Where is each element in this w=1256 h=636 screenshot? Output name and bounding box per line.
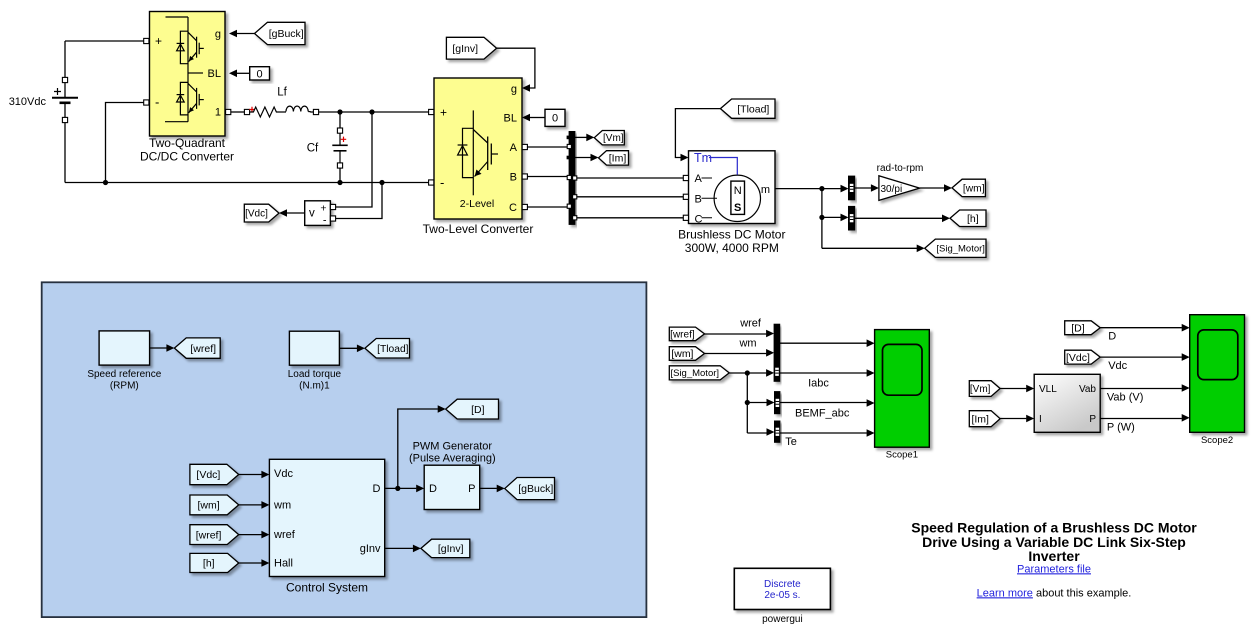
From tag [gInv] xyxy=(446,37,496,59)
wire Sig_Motor down xyxy=(746,373,748,433)
svg-text:[wref]: [wref] xyxy=(190,343,216,355)
svg-text:[Tload]: [Tload] xyxy=(377,344,408,355)
Goto tag [wm] xyxy=(952,179,985,196)
wire U2 B to bus xyxy=(527,176,569,178)
svg-text:(RPM): (RPM) xyxy=(110,380,139,391)
wire Vdc to CS xyxy=(239,474,262,476)
wire gBuck to U1 g xyxy=(237,33,255,35)
wire CS gInv out xyxy=(385,547,413,549)
svg-text:BEMF_abc: BEMF_abc xyxy=(795,407,850,419)
Lf right port xyxy=(313,109,318,114)
U2 + port xyxy=(429,109,434,114)
bus selector S2 xyxy=(849,206,855,230)
wire to selector B3 xyxy=(747,432,766,434)
svg-text:m: m xyxy=(761,184,770,196)
wire Im to power block xyxy=(1000,418,1026,420)
wire wref to CS xyxy=(239,534,262,536)
subsystem Control System xyxy=(269,459,384,576)
From tag [h] xyxy=(190,553,239,572)
U1 - port xyxy=(144,100,149,105)
wire Vm to power block xyxy=(1000,388,1026,390)
svg-text:P: P xyxy=(1089,414,1096,425)
wire BEMF_abc to scope1 xyxy=(780,402,867,404)
svg-text:v: v xyxy=(309,208,315,220)
capacitor Cf branch xyxy=(339,112,341,128)
svg-text:[D]: [D] xyxy=(1071,322,1085,334)
Goto tag [Im] xyxy=(599,151,629,165)
wire mux to scope1 in1 xyxy=(780,342,867,344)
bus Vm/Im stubs xyxy=(567,136,571,140)
bus out port xyxy=(573,195,577,199)
wire bus to Im xyxy=(575,157,591,159)
wire U2 C to bus xyxy=(527,206,569,208)
svg-text:Vdc: Vdc xyxy=(1108,360,1127,372)
svg-text:C: C xyxy=(509,202,517,214)
svg-text:A: A xyxy=(695,173,703,185)
svg-text:Hall: Hall xyxy=(274,557,293,569)
wire U2 A to bus xyxy=(527,146,569,148)
bus selector S1 xyxy=(849,176,855,200)
svg-text:[Im]: [Im] xyxy=(609,153,627,165)
wire speed ref to wref xyxy=(150,347,167,349)
bus out port xyxy=(573,176,577,180)
wire V1 + to top rail xyxy=(336,112,372,207)
svg-text:wm: wm xyxy=(273,499,291,511)
svg-text:[gInv]: [gInv] xyxy=(438,543,464,555)
mux scope1 xyxy=(774,324,780,381)
svg-text:C: C xyxy=(695,213,703,225)
powergui block xyxy=(734,568,830,609)
From tag [Im] scope2 xyxy=(969,411,1000,427)
svg-text:S: S xyxy=(734,202,741,214)
From tag [gBuck] xyxy=(255,22,306,44)
U2 C port xyxy=(522,204,527,209)
From tag [Sig_Motor] scope1 xyxy=(669,366,729,380)
DC voltage source 310Vdc xyxy=(52,41,78,183)
constant 0 for U2 BL xyxy=(545,109,565,126)
Goto tag [Vdc] xyxy=(244,204,279,222)
scope Scope1 xyxy=(875,330,930,448)
bus selector B2 xyxy=(775,392,780,414)
wire gain to wm xyxy=(920,187,945,189)
svg-text:30/pi: 30/pi xyxy=(881,184,903,195)
svg-text:Scope2: Scope2 xyxy=(1201,435,1233,446)
svg-text:0: 0 xyxy=(257,68,263,80)
svg-text:Brushless DC Motor: Brushless DC Motor xyxy=(678,228,785,242)
svg-text:wref: wref xyxy=(739,317,762,329)
wire CS D out xyxy=(385,487,417,489)
battery - terminal port xyxy=(62,117,67,122)
wire D to scope2 xyxy=(1100,327,1182,329)
svg-text:Vdc: Vdc xyxy=(274,468,293,480)
svg-text:N: N xyxy=(734,185,742,197)
motor A port xyxy=(683,175,688,180)
wire U1 out to Lf xyxy=(231,111,245,113)
U2 - port xyxy=(429,180,434,185)
svg-text:I: I xyxy=(1039,414,1042,425)
wire to selector B2 xyxy=(747,402,766,404)
svg-text:wref: wref xyxy=(273,529,296,541)
Goto tag [gInv] xyxy=(421,539,470,557)
motor Brushless DC xyxy=(689,151,776,224)
wire Sig_Motor to selector xyxy=(729,372,766,374)
voltage measurement V1 xyxy=(305,201,331,226)
svg-text:Vab (V): Vab (V) xyxy=(1107,392,1143,404)
wire wref to mux xyxy=(705,333,767,335)
svg-text:(N.m)1: (N.m)1 xyxy=(299,381,330,392)
svg-text:BL: BL xyxy=(208,68,221,80)
wire Vdc to scope2 xyxy=(1100,356,1182,358)
motor rotor circle xyxy=(714,175,760,221)
svg-text:[Vdc]: [Vdc] xyxy=(196,469,220,481)
bus out port xyxy=(573,216,577,220)
Goto tag [Vm] xyxy=(594,131,624,145)
wire load torque to Tload xyxy=(339,347,357,349)
svg-text:B: B xyxy=(510,172,517,184)
svg-text:[wref]: [wref] xyxy=(196,529,222,541)
svg-text:Parameters file: Parameters file xyxy=(1017,563,1091,575)
wire bottom rail xyxy=(65,182,434,184)
junction bottom rail / DC/DC - xyxy=(103,180,108,185)
wire Te to scope1 xyxy=(780,432,867,434)
svg-text:Two-Level Converter: Two-Level Converter xyxy=(423,222,534,236)
red plus polarity Lf xyxy=(249,107,254,112)
wire Iabc to scope1 xyxy=(780,372,867,374)
From tag [wref] scope1 xyxy=(669,327,704,341)
svg-text:2-Level: 2-Level xyxy=(460,198,494,210)
battery + terminal port xyxy=(62,77,67,82)
svg-text:D: D xyxy=(373,483,381,495)
From tag [Vdc] scope2 xyxy=(1065,350,1101,364)
svg-text:gInv: gInv xyxy=(360,543,381,555)
svg-text:Vab: Vab xyxy=(1079,384,1096,395)
svg-text:[gInv]: [gInv] xyxy=(452,43,478,55)
wire to selector2 xyxy=(822,216,841,218)
From tag [Vm] scope2 xyxy=(969,381,1000,397)
svg-text:+: + xyxy=(155,34,162,48)
motor C port xyxy=(683,215,688,220)
svg-text:g: g xyxy=(215,29,221,41)
wire bus to motor C xyxy=(577,217,686,219)
svg-text:D: D xyxy=(1108,330,1116,342)
svg-text:Speed reference: Speed reference xyxy=(87,369,161,380)
svg-text:[Tload]: [Tload] xyxy=(737,103,769,115)
junction m / down xyxy=(819,186,824,191)
svg-text:rad-to-rpm: rad-to-rpm xyxy=(877,163,924,174)
wire m branch down xyxy=(821,189,823,249)
svg-text:[wref]: [wref] xyxy=(670,329,695,340)
svg-text:Inverter: Inverter xyxy=(1028,548,1080,564)
svg-text:Cf: Cf xyxy=(307,143,319,155)
Goto tag [h] xyxy=(950,210,986,227)
svg-text:1: 1 xyxy=(215,107,221,119)
svg-text:Two-Quadrant: Two-Quadrant xyxy=(149,136,226,150)
svg-text:[gBuck]: [gBuck] xyxy=(518,483,553,495)
svg-text:A: A xyxy=(510,142,518,154)
three-phase measurement bus xyxy=(569,132,575,225)
wire bus to Vm xyxy=(575,136,587,138)
svg-text:-: - xyxy=(155,95,159,110)
wire selector2 to h xyxy=(855,217,943,219)
svg-text:powergui: powergui xyxy=(762,614,803,625)
svg-text:[wm]: [wm] xyxy=(671,348,693,360)
junction Sig_Motor 1 xyxy=(745,370,750,375)
U2 A port xyxy=(522,144,527,149)
svg-text:+: + xyxy=(440,106,447,120)
From tag [wref] xyxy=(190,525,239,545)
svg-text:Te: Te xyxy=(785,436,797,448)
svg-text:[gBuck]: [gBuck] xyxy=(269,28,304,40)
svg-text:Lf: Lf xyxy=(277,87,287,99)
svg-text:P: P xyxy=(468,483,475,495)
junction m branch2 xyxy=(819,215,824,220)
svg-text:D: D xyxy=(429,483,437,495)
svg-text:2e-05 s.: 2e-05 s. xyxy=(764,590,800,601)
wire DC/DC - to bottom rail xyxy=(106,103,150,183)
inductor branch Lf xyxy=(250,107,286,117)
svg-text:[Vm]: [Vm] xyxy=(970,384,991,395)
Cf bottom port xyxy=(337,163,342,168)
From tag [D] scope2 xyxy=(1065,321,1101,335)
source block Speed reference xyxy=(99,331,150,365)
svg-text:Load torque: Load torque xyxy=(288,369,342,380)
svg-text:g: g xyxy=(511,84,517,96)
converter U2 Two-Level xyxy=(434,78,522,219)
Cf top port xyxy=(337,128,342,133)
wire Vab to scope2 xyxy=(1100,388,1182,390)
junction bottom rail Cf xyxy=(337,180,342,185)
From tag [Vdc] xyxy=(190,464,239,484)
wire gInv to U2 g xyxy=(497,48,535,88)
scope Scope2 xyxy=(1190,315,1245,433)
V1 + port xyxy=(330,204,335,209)
source block Load torque xyxy=(289,331,339,365)
svg-text:[h]: [h] xyxy=(967,213,979,225)
svg-text:wm: wm xyxy=(738,337,756,349)
junction bottom rail v- xyxy=(379,180,384,185)
svg-text:Discrete: Discrete xyxy=(764,579,801,590)
svg-text:(Pulse Averaging): (Pulse Averaging) xyxy=(409,452,496,464)
gain rad-to-rpm 30/pi xyxy=(855,187,871,189)
wire V1 out to goto Vdc xyxy=(287,212,305,214)
svg-text:[h]: [h] xyxy=(203,558,215,570)
svg-text:[D]: [D] xyxy=(471,404,485,416)
svg-text:Iabc: Iabc xyxy=(808,377,829,389)
svg-text:Learn more about this example.: Learn more about this example. xyxy=(977,587,1132,599)
wire bus to motor A xyxy=(577,177,686,179)
wire V1 - to bottom rail xyxy=(336,183,382,219)
svg-text:[Sig_Motor]: [Sig_Motor] xyxy=(936,244,985,255)
From tag [wm] xyxy=(190,495,239,515)
svg-text:DC/DC Converter: DC/DC Converter xyxy=(140,150,234,164)
bus in port xyxy=(567,204,571,208)
svg-text:PWM Generator: PWM Generator xyxy=(413,440,493,452)
junction D xyxy=(395,486,400,491)
U1 + port xyxy=(144,38,149,43)
wire Tload to motor Tm xyxy=(675,109,720,158)
wire 0 to U1 BL xyxy=(237,72,250,74)
wire h to CS xyxy=(239,562,262,564)
From tag [wm] scope1 xyxy=(669,347,704,361)
From tag [Tload] top xyxy=(720,99,775,118)
Goto tag [gBuck] xyxy=(505,478,555,500)
Goto tag [wref] xyxy=(174,338,220,358)
svg-text:-: - xyxy=(323,215,327,227)
constant 0 for U1 BL xyxy=(250,67,270,80)
V1 - port xyxy=(330,216,335,221)
wire motor m out xyxy=(775,188,841,190)
junction top rail Cf xyxy=(337,109,342,114)
svg-text:[Vm]: [Vm] xyxy=(603,133,624,144)
svg-text:-: - xyxy=(440,175,444,190)
Goto tag [D] xyxy=(446,399,499,419)
Goto tag [Sig_Motor] xyxy=(925,239,986,257)
svg-text:Control System: Control System xyxy=(286,581,368,595)
U1 IGBT upper xyxy=(177,31,204,64)
svg-text:[wm]: [wm] xyxy=(963,183,985,194)
svg-text:+: + xyxy=(320,203,326,215)
U1 IGBT lower xyxy=(177,82,204,115)
wire P to scope2 xyxy=(1100,418,1182,420)
wire D to goto D xyxy=(398,409,438,488)
junction Sig_Motor 2 xyxy=(745,400,750,405)
svg-text:310Vdc: 310Vdc xyxy=(9,96,47,108)
svg-text:[wm]: [wm] xyxy=(197,500,219,512)
svg-text:[Im]: [Im] xyxy=(971,413,989,425)
junction top rail v+ xyxy=(369,109,374,114)
svg-text:0: 0 xyxy=(552,113,558,125)
wire 0 to U2 BL xyxy=(530,117,545,119)
converter U1 Two-Quadrant DC/DC xyxy=(150,12,226,137)
U2 B port xyxy=(522,174,527,179)
U1 out1 port xyxy=(226,109,231,114)
wire bus to motor B xyxy=(577,196,686,198)
power measurement block xyxy=(1034,374,1100,432)
control area background xyxy=(42,282,647,617)
wire PWM P out xyxy=(480,487,497,489)
wire wm to CS xyxy=(239,504,262,506)
svg-text:[Sig_Motor]: [Sig_Motor] xyxy=(670,368,719,379)
svg-text:[Vdc]: [Vdc] xyxy=(1066,352,1090,364)
wire battery+ to DC/DC + xyxy=(65,40,150,42)
wire Lf to 2-Level + xyxy=(319,111,434,113)
svg-text:P (W): P (W) xyxy=(1107,421,1135,433)
bus in port xyxy=(567,175,571,179)
motor B port xyxy=(683,194,688,199)
svg-text:300W, 4000 RPM: 300W, 4000 RPM xyxy=(685,241,779,255)
svg-text:Scope1: Scope1 xyxy=(886,450,918,461)
bus in port xyxy=(567,144,571,148)
subsystem PWM Generator xyxy=(424,465,480,509)
wire to Sig_Motor xyxy=(822,247,917,249)
svg-text:[Vdc]: [Vdc] xyxy=(245,209,268,220)
svg-text:VLL: VLL xyxy=(1039,384,1057,395)
Goto tag [Tload] xyxy=(365,339,410,359)
Lf left port xyxy=(244,109,249,114)
svg-text:BL: BL xyxy=(504,113,517,125)
motor magnet NS xyxy=(731,181,745,214)
svg-text:B: B xyxy=(695,193,702,205)
wire wm to mux xyxy=(705,353,767,355)
bus selector B3 xyxy=(775,421,780,442)
